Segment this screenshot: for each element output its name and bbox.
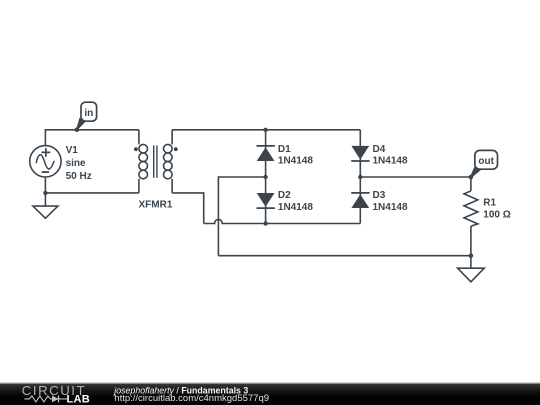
svg-text:http://circuitlab.com/c4nmkgd5: http://circuitlab.com/c4nmkgd5577q9 [114, 393, 269, 404]
svg-text:out: out [478, 156, 494, 167]
svg-text:1N4148: 1N4148 [373, 156, 408, 167]
junction D4-D3 midpoint node [358, 175, 362, 179]
svg-text:D2: D2 [278, 190, 291, 201]
resistor R1 [464, 191, 478, 226]
transformer phase dots [134, 147, 138, 151]
wire bridge bottom rail with hop [204, 219, 361, 223]
svg-text:D4: D4 [373, 144, 386, 155]
svg-text:1N4148: 1N4148 [373, 202, 408, 213]
wire secondary bottom to bridge bottom rail [172, 193, 204, 224]
svg-text:R1: R1 [483, 198, 496, 209]
wire V1 bottom to ground [44, 177, 46, 206]
primary stubs [138, 130, 140, 145]
svg-text:D1: D1 [278, 144, 291, 155]
wire D4 branch vertical [359, 130, 361, 224]
transformer XFMR1 [139, 130, 172, 193]
label V1 sine 50 Hz [66, 145, 92, 182]
core [154, 145, 157, 177]
svg-text:in: in [84, 108, 93, 119]
wire R1 leads [470, 177, 472, 191]
ground under V1 [33, 206, 58, 218]
wire D1 branch vertical [265, 130, 267, 224]
wire mid-left branch [218, 177, 265, 256]
svg-text:sine: sine [66, 158, 86, 169]
voltage source V1 [30, 146, 61, 177]
junction D1 cathode / top rail node [263, 128, 267, 132]
CircuitLab logo [22, 383, 90, 405]
svg-text:V1: V1 [66, 145, 79, 156]
wire top rail primary loop [45, 130, 138, 146]
junction V1-ground node [43, 191, 47, 195]
svg-text:1N4148: 1N4148 [278, 156, 313, 167]
diode D4 [351, 146, 369, 161]
diode D3 [351, 193, 369, 208]
svg-text:1N4148: 1N4148 [278, 202, 313, 213]
diode D1 [257, 146, 275, 161]
net flag in [75, 102, 97, 132]
svg-text:LAB: LAB [67, 394, 91, 405]
wire bottom long rail [218, 255, 471, 257]
secondary coil [164, 144, 173, 153]
svg-text:100 Ω: 100 Ω [483, 210, 510, 221]
wire mid-right to output [360, 176, 471, 178]
wire primary bottom rail [45, 192, 138, 194]
junction D1-D2 midpoint node [263, 175, 267, 179]
svg-text:50 Hz: 50 Hz [66, 171, 92, 182]
wire secondary top to bridge top rail [172, 129, 360, 131]
footer text [113, 385, 269, 404]
primary coil [139, 144, 148, 153]
junction node out / R1 top [469, 175, 474, 180]
svg-text:XFMR1: XFMR1 [139, 199, 173, 210]
junction R1 bottom / ground node [469, 253, 474, 258]
net flag out [470, 150, 497, 177]
ground under R1 [458, 268, 485, 282]
junction D2 bottom rail node [263, 221, 267, 225]
svg-text:D3: D3 [373, 190, 386, 201]
diode D2 [257, 193, 275, 208]
secondary stubs [171, 130, 173, 145]
